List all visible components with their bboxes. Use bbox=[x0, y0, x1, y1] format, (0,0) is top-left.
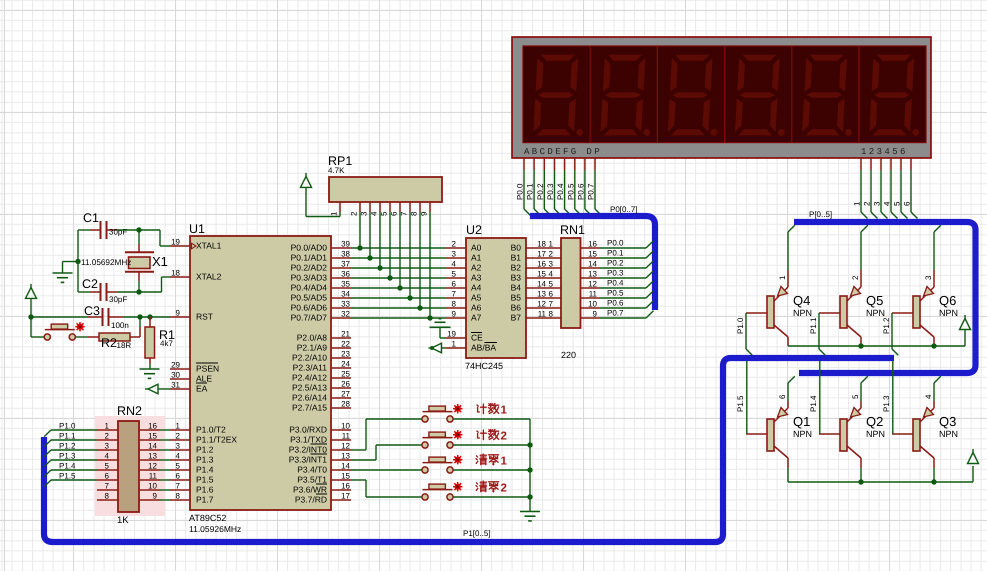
svg-text:4: 4 bbox=[105, 452, 110, 461]
svg-text:21: 21 bbox=[341, 330, 350, 339]
svg-text:A5: A5 bbox=[471, 293, 482, 303]
svg-text:B1: B1 bbox=[511, 253, 522, 263]
RN2 pin 9 right wire to U1 P1.7 bbox=[139, 492, 170, 501]
svg-text:Q3: Q3 bbox=[939, 414, 956, 429]
RN2 pin 13 right wire to U1 P1.3 bbox=[139, 452, 170, 461]
svg-text:ABCDEFG DP: ABCDEFG DP bbox=[524, 147, 602, 157]
svg-text:13: 13 bbox=[588, 270, 597, 279]
wire XTAL1 net bbox=[78, 230, 170, 246]
RN1 pin 10 wire P0.6 bbox=[581, 300, 654, 309]
svg-text:XTAL1: XTAL1 bbox=[196, 241, 222, 251]
svg-text:22: 22 bbox=[341, 340, 350, 349]
svg-text:P3.6/WR: P3.6/WR bbox=[293, 485, 327, 495]
U1 pin 3 P1.2 bbox=[170, 442, 190, 451]
svg-text:P1.5: P1.5 bbox=[196, 475, 214, 485]
svg-text:P0.5/AD5: P0.5/AD5 bbox=[291, 293, 328, 303]
svg-text:5: 5 bbox=[452, 270, 457, 279]
svg-text:9: 9 bbox=[420, 211, 429, 216]
svg-text:AB/BA: AB/BA bbox=[471, 343, 496, 353]
svg-text:2: 2 bbox=[851, 275, 860, 280]
svg-text:12: 12 bbox=[537, 300, 546, 309]
U1 pin 1 P1.0 bbox=[170, 422, 190, 431]
svg-text:P0.6/AD6: P0.6/AD6 bbox=[291, 303, 328, 313]
svg-text:ALE: ALE bbox=[196, 374, 212, 384]
junction RP1 pin 2 / P0.0 bbox=[357, 245, 362, 250]
svg-text:P1.3: P1.3 bbox=[59, 452, 76, 461]
junction Q6 emitter bbox=[931, 343, 936, 348]
capacitor C2 bbox=[90, 283, 117, 301]
push-button reset bbox=[44, 324, 75, 340]
svg-text:P1.5: P1.5 bbox=[59, 472, 76, 481]
svg-text:13: 13 bbox=[537, 290, 546, 299]
svg-text:P0.7: P0.7 bbox=[607, 309, 624, 318]
U2 pin 1 AB/BA bbox=[446, 340, 466, 349]
wire P0.5 row U1-U2 bbox=[351, 297, 446, 299]
svg-text:XTAL2: XTAL2 bbox=[196, 272, 222, 282]
svg-text:29: 29 bbox=[171, 361, 180, 370]
wire buttons common right bbox=[453, 419, 530, 511]
U1 pin 14 P3.4 bbox=[331, 462, 351, 471]
RN1 pin 14 wire P0.2 bbox=[581, 260, 654, 269]
capacitor C3 bbox=[88, 308, 123, 326]
svg-text:P1.4: P1.4 bbox=[809, 395, 818, 412]
svg-text:A1: A1 bbox=[471, 253, 482, 263]
RN2 pin 1 left bbox=[97, 422, 118, 431]
svg-text:11: 11 bbox=[589, 290, 598, 299]
U1 pin 34 P0.5/AD5 bbox=[331, 290, 351, 299]
svg-text:4k7: 4k7 bbox=[160, 339, 173, 348]
svg-text:PSEN: PSEN bbox=[196, 364, 219, 374]
svg-text:1: 1 bbox=[330, 211, 339, 216]
svg-text:P1[0..5]: P1[0..5] bbox=[463, 529, 491, 538]
wire P1.5 to bus bbox=[44, 480, 97, 487]
svg-text:17: 17 bbox=[341, 492, 350, 501]
svg-text:P1.0/T2: P1.0/T2 bbox=[196, 425, 226, 435]
RN2 pin 11 right wire to U1 P1.5 bbox=[139, 472, 170, 481]
svg-text:NPN: NPN bbox=[866, 308, 885, 318]
U1 pin 11 P3.1 bbox=[331, 432, 351, 441]
push-button jishu2 bbox=[422, 432, 453, 448]
U2 pin 17 B1 / RN1 pin 2 bbox=[526, 250, 561, 259]
svg-text:C3: C3 bbox=[84, 304, 100, 318]
junction Q5 emitter bbox=[858, 343, 863, 348]
ground (buttons) bbox=[520, 512, 540, 521]
svg-text:P0.0/AD0: P0.0/AD0 bbox=[291, 243, 328, 253]
svg-text:25: 25 bbox=[341, 370, 350, 379]
U1 pin 2 P1.1 bbox=[170, 432, 190, 441]
svg-text:P1.5: P1.5 bbox=[736, 395, 745, 412]
svg-text:1: 1 bbox=[501, 456, 508, 468]
wire P0.6 row U1-U2 bbox=[351, 307, 446, 309]
svg-text:8: 8 bbox=[176, 492, 181, 501]
wire button2 to P3.3/INT1 bbox=[351, 445, 422, 460]
digit 5 segments (all off) bbox=[801, 54, 852, 136]
display digit pin wire 6 bbox=[911, 158, 918, 219]
svg-text:12: 12 bbox=[148, 462, 157, 471]
junction ground tap bbox=[75, 259, 80, 264]
transistor Q1 NPN bbox=[746, 408, 788, 459]
wire P1.4 bus to base Q2 bbox=[819, 361, 821, 434]
U1 pin 39 P0.0/AD0 bbox=[331, 240, 351, 249]
svg-text:5: 5 bbox=[105, 462, 110, 471]
U1 pin 23 P2.2/A10 bbox=[331, 350, 351, 359]
svg-text:30pF: 30pF bbox=[109, 228, 127, 237]
junction RP1 pin 8 / P0.6 bbox=[417, 305, 422, 310]
svg-text:13: 13 bbox=[148, 452, 157, 461]
wire P1.5 bus to base Q1 bbox=[746, 361, 748, 434]
svg-text:9: 9 bbox=[153, 492, 158, 501]
svg-text:11: 11 bbox=[342, 432, 351, 441]
U1 pin 38 P0.1/AD1 bbox=[331, 250, 351, 259]
svg-text:RST: RST bbox=[196, 312, 213, 322]
svg-text:3: 3 bbox=[176, 442, 181, 451]
junction Q3 emitter bbox=[931, 479, 936, 484]
svg-text:U2: U2 bbox=[466, 223, 482, 237]
RP1 pin 8 wire bbox=[419, 202, 421, 308]
wire P1.3 to bus bbox=[44, 460, 97, 467]
svg-text:28: 28 bbox=[341, 400, 350, 409]
power +5V (RP1) bbox=[301, 173, 312, 188]
button reset actuator star bbox=[75, 322, 84, 331]
svg-text:34: 34 bbox=[341, 290, 350, 299]
svg-text:30pF: 30pF bbox=[109, 295, 127, 304]
svg-text:X1: X1 bbox=[152, 254, 168, 269]
button qingling2 actuator star bbox=[453, 482, 462, 491]
wire 3 Q6 collector to bus bbox=[934, 225, 941, 287]
junction C3/R2 bbox=[137, 314, 142, 319]
svg-text:2: 2 bbox=[452, 240, 457, 249]
display segment pin wire P0.7 bbox=[595, 158, 602, 216]
svg-text:15: 15 bbox=[537, 270, 546, 279]
svg-text:A2: A2 bbox=[471, 263, 482, 273]
wire Q1-Q3 emitter rail bbox=[788, 458, 973, 482]
label qingling2 bbox=[476, 481, 507, 495]
U1 pin names left column bbox=[196, 241, 237, 505]
svg-text:Q6: Q6 bbox=[939, 293, 956, 308]
svg-text:10: 10 bbox=[341, 422, 350, 431]
RN2 pin 14 right wire to U1 P1.2 bbox=[139, 442, 170, 451]
RP1 pin 7 wire bbox=[409, 202, 411, 298]
IC U2 74HC245 body bbox=[466, 238, 526, 358]
svg-text:31: 31 bbox=[171, 381, 180, 390]
svg-text:P1.7: P1.7 bbox=[196, 495, 214, 505]
wire C1-C2 left vertical bbox=[77, 230, 79, 292]
svg-text:NPN: NPN bbox=[939, 429, 958, 439]
RN1 pin 13 wire P0.3 bbox=[581, 270, 654, 279]
svg-text:NPN: NPN bbox=[793, 308, 812, 318]
svg-text:P1.4: P1.4 bbox=[196, 465, 214, 475]
display segment pin wire P0.4 bbox=[565, 158, 572, 216]
svg-text:14: 14 bbox=[537, 280, 546, 289]
U1 pin 30 ALE bbox=[170, 371, 190, 380]
svg-text:NPN: NPN bbox=[793, 429, 812, 439]
svg-text:5: 5 bbox=[380, 211, 389, 216]
svg-text:35: 35 bbox=[341, 280, 350, 289]
U2 pin 3 A1 bbox=[446, 250, 466, 259]
svg-text:11: 11 bbox=[538, 310, 547, 319]
svg-text:10: 10 bbox=[588, 300, 597, 309]
svg-text:Q4: Q4 bbox=[793, 293, 810, 308]
RN2 pin 10 right wire to U1 P1.6 bbox=[139, 482, 170, 491]
svg-text:P2.7/A15: P2.7/A15 bbox=[292, 403, 327, 413]
svg-text:3: 3 bbox=[452, 250, 457, 259]
svg-text:123456: 123456 bbox=[861, 147, 908, 157]
U1 pin 31 EA bbox=[170, 381, 190, 390]
svg-text:B2: B2 bbox=[511, 263, 522, 273]
svg-text:18R: 18R bbox=[117, 341, 132, 350]
junction Q2 emitter bbox=[858, 479, 863, 484]
junction RST/R1 bbox=[147, 314, 152, 319]
svg-text:7: 7 bbox=[400, 211, 409, 216]
svg-text:P0.4/AD4: P0.4/AD4 bbox=[291, 283, 328, 293]
U2 pin 5 A3 bbox=[446, 270, 466, 279]
junction RP1 pin 5 / P0.3 bbox=[387, 275, 392, 280]
svg-text:Q5: Q5 bbox=[866, 293, 883, 308]
svg-text:A3: A3 bbox=[471, 273, 482, 283]
svg-text:74HC245: 74HC245 bbox=[465, 361, 503, 371]
button jishu2 actuator star bbox=[453, 430, 462, 439]
power +5V (Q1-Q3 rail) bbox=[968, 449, 979, 464]
svg-text:1: 1 bbox=[452, 340, 457, 349]
wire P1.0 to bus bbox=[44, 430, 97, 437]
display digit pin wire 2 bbox=[871, 158, 878, 219]
RN2 pin 6 left bbox=[97, 472, 118, 481]
svg-text:P2.6/A14: P2.6/A14 bbox=[292, 393, 327, 403]
svg-text:1: 1 bbox=[853, 201, 862, 206]
U2 pin 6 A4 bbox=[446, 280, 466, 289]
U1 pin 36 P0.3/AD3 bbox=[331, 270, 351, 279]
junction RP1 pin 9 / P0.7 bbox=[427, 315, 432, 320]
junction buttons 4 bbox=[527, 494, 532, 499]
U1 pin 28 P2.7/A15 bbox=[331, 400, 351, 409]
wire RST row bbox=[31, 316, 170, 318]
svg-text:2: 2 bbox=[863, 201, 872, 206]
RP1 pin 2 wire bbox=[359, 202, 361, 248]
U1 pin 8 P1.7 bbox=[170, 492, 190, 501]
svg-text:5: 5 bbox=[851, 394, 860, 399]
resistor network RN1 body bbox=[561, 238, 581, 328]
svg-text:P0.1: P0.1 bbox=[607, 249, 624, 258]
RP1 pin 4 wire bbox=[379, 202, 381, 268]
6-digit 7-segment display DISP1 bbox=[512, 37, 931, 158]
svg-text:8: 8 bbox=[549, 310, 554, 319]
svg-text:B0: B0 bbox=[511, 243, 522, 253]
power +5V (Q4-Q6 rail) bbox=[960, 315, 971, 330]
U1 pin 7 P1.6 bbox=[170, 482, 190, 491]
display segment pin wire P0.6 bbox=[585, 158, 592, 216]
U2 pin 12 B6 / RN1 pin 7 bbox=[526, 300, 561, 309]
U1 pin 29 PSEN bbox=[170, 361, 190, 370]
svg-text:8: 8 bbox=[452, 300, 457, 309]
svg-text:4: 4 bbox=[370, 211, 379, 216]
svg-text:13: 13 bbox=[341, 452, 350, 461]
svg-text:15: 15 bbox=[148, 432, 157, 441]
label jishu1 bbox=[477, 403, 508, 416]
wire P0.1 row U1-U2 bbox=[351, 257, 446, 259]
svg-text:A7: A7 bbox=[471, 313, 482, 323]
svg-text:AT89C52: AT89C52 bbox=[189, 513, 226, 523]
U1 pin 35 P0.4/AD4 bbox=[331, 280, 351, 289]
svg-text:P0.1: P0.1 bbox=[526, 183, 535, 200]
U1 pin 13 P3.3 bbox=[331, 452, 351, 461]
U2 pin 15 B3 / RN1 pin 4 bbox=[526, 270, 561, 279]
svg-text:P0.2/AD2: P0.2/AD2 bbox=[291, 263, 328, 273]
digit 2 segments (all off) bbox=[600, 54, 651, 136]
wire 2 Q5 collector to bus bbox=[861, 225, 868, 287]
svg-text:2: 2 bbox=[176, 432, 181, 441]
svg-text:B7: B7 bbox=[511, 313, 522, 323]
svg-text:P1.2: P1.2 bbox=[882, 317, 891, 334]
display segment pin wire P0.2 bbox=[544, 158, 551, 216]
svg-text:5: 5 bbox=[176, 462, 181, 471]
IC U1 AT89C52 body bbox=[190, 236, 331, 510]
svg-text:R2: R2 bbox=[101, 336, 117, 350]
svg-text:3: 3 bbox=[873, 201, 882, 206]
U2 pin 14 B4 / RN1 pin 5 bbox=[526, 280, 561, 289]
power arrow (U2 AB/BA) bbox=[429, 343, 447, 353]
svg-text:P1.3: P1.3 bbox=[196, 455, 214, 465]
svg-text:15: 15 bbox=[341, 472, 350, 481]
svg-text:100n: 100n bbox=[111, 321, 129, 330]
RN2 pin 16 right wire to U1 P1.0 bbox=[139, 422, 170, 431]
svg-text:2: 2 bbox=[549, 250, 554, 259]
svg-text:1: 1 bbox=[549, 240, 554, 249]
svg-text:30: 30 bbox=[171, 371, 180, 380]
svg-text:27: 27 bbox=[341, 390, 350, 399]
junction buttons 2 bbox=[527, 442, 532, 447]
wire P0.3 row U1-U2 bbox=[351, 277, 446, 279]
junction RP1 pin 6 / P0.4 bbox=[397, 285, 402, 290]
transistor Q5 NPN bbox=[819, 287, 861, 338]
svg-text:6: 6 bbox=[105, 472, 110, 481]
button jishu1 actuator star bbox=[453, 404, 462, 413]
svg-text:P1.1/T2EX: P1.1/T2EX bbox=[196, 435, 237, 445]
svg-text:7: 7 bbox=[549, 300, 554, 309]
push-button qingling2 bbox=[422, 484, 453, 500]
RN1 pin 16 wire P0.0 bbox=[581, 240, 654, 249]
svg-text:7: 7 bbox=[105, 482, 110, 491]
svg-text:P0.6: P0.6 bbox=[576, 183, 585, 200]
U1 pin 25 P2.4/A12 bbox=[331, 370, 351, 379]
svg-text:2: 2 bbox=[105, 432, 110, 441]
svg-text:6: 6 bbox=[549, 290, 554, 299]
svg-text:P1.6: P1.6 bbox=[196, 485, 214, 495]
RN2 pin 5 left bbox=[97, 462, 118, 471]
svg-text:RN2: RN2 bbox=[117, 404, 142, 418]
svg-text:5: 5 bbox=[893, 201, 902, 206]
U1 pin 4 P1.3 bbox=[170, 452, 190, 461]
wire P1.2 base Q6 to bus bbox=[892, 313, 898, 355]
resistor R1 bbox=[145, 317, 155, 369]
svg-text:P1.1: P1.1 bbox=[809, 317, 818, 334]
U1 pin 17 P3.7 bbox=[331, 492, 351, 501]
svg-text:P1.4: P1.4 bbox=[59, 462, 76, 471]
svg-text:P0.0: P0.0 bbox=[516, 183, 525, 200]
svg-text:24: 24 bbox=[341, 360, 350, 369]
svg-text:B6: B6 bbox=[511, 303, 522, 313]
ground (R1) bbox=[140, 369, 160, 378]
svg-text:3: 3 bbox=[360, 211, 369, 216]
wire 6 bus to Q1 collector bbox=[788, 376, 795, 408]
svg-text:9: 9 bbox=[593, 310, 598, 319]
svg-text:P1.1: P1.1 bbox=[59, 432, 76, 441]
svg-text:1K: 1K bbox=[117, 515, 129, 526]
svg-text:P3.5/T1: P3.5/T1 bbox=[297, 475, 327, 485]
digit 4 segments (all off) bbox=[734, 54, 785, 136]
svg-text:4: 4 bbox=[452, 260, 457, 269]
svg-text:18: 18 bbox=[171, 269, 180, 278]
transistor Q3 NPN bbox=[892, 408, 934, 459]
svg-text:2: 2 bbox=[501, 431, 507, 443]
svg-text:1: 1 bbox=[176, 422, 181, 431]
svg-text:23: 23 bbox=[341, 350, 350, 359]
display segment pin wire P0.5 bbox=[575, 158, 582, 216]
svg-text:P2.3/A11: P2.3/A11 bbox=[293, 363, 328, 373]
svg-text:NPN: NPN bbox=[939, 308, 958, 318]
U1 pin 21 P2.0/A8 bbox=[331, 330, 351, 339]
svg-text:A6: A6 bbox=[471, 303, 482, 313]
svg-text:P3.1/TXD: P3.1/TXD bbox=[290, 435, 327, 445]
U2 pin names bbox=[471, 243, 521, 353]
U1 pin 24 P2.3/A11 bbox=[331, 360, 351, 369]
svg-text:4: 4 bbox=[549, 270, 554, 279]
wire button1 to P3.2/INT0 bbox=[351, 419, 422, 450]
svg-text:39: 39 bbox=[341, 240, 350, 249]
svg-text:5: 5 bbox=[549, 280, 554, 289]
svg-text:6: 6 bbox=[176, 472, 181, 481]
U1 pin 5 P1.4 bbox=[170, 462, 190, 471]
wire button4 to P3.5/T1 bbox=[351, 480, 422, 497]
U1 pin 12 P3.2 bbox=[331, 442, 351, 451]
RN1 pin 11 wire P0.5 bbox=[581, 290, 654, 299]
RN1 pin 12 wire P0.4 bbox=[581, 280, 654, 289]
svg-text:16: 16 bbox=[537, 260, 546, 269]
svg-text:P3.4/T0: P3.4/T0 bbox=[297, 465, 327, 475]
svg-text:P0.4: P0.4 bbox=[607, 279, 624, 288]
svg-text:8: 8 bbox=[105, 492, 110, 501]
wire EA power bbox=[159, 388, 171, 390]
wire P0.2 row U1-U2 bbox=[351, 267, 446, 269]
capacitor C1 bbox=[90, 221, 117, 239]
svg-text:U1: U1 bbox=[189, 222, 205, 236]
svg-text:P3.7/RD: P3.7/RD bbox=[295, 495, 327, 505]
power +5V (reset) bbox=[26, 284, 37, 317]
svg-text:11.05692MHz: 11.05692MHz bbox=[81, 258, 131, 267]
svg-text:16: 16 bbox=[588, 240, 597, 249]
svg-text:P0.5: P0.5 bbox=[607, 289, 624, 298]
svg-text:220: 220 bbox=[561, 350, 576, 360]
bus P[0..5] right vertical bbox=[794, 222, 976, 373]
svg-text:RN1: RN1 bbox=[560, 223, 585, 237]
U1 pin 19 XTAL1 bbox=[170, 238, 190, 247]
wire reset button leg bbox=[31, 317, 88, 337]
U1 pin 6 P1.5 bbox=[170, 472, 190, 481]
svg-text:6: 6 bbox=[778, 394, 787, 399]
svg-text:17: 17 bbox=[537, 250, 546, 259]
junction RP1 pin 4 / P0.2 bbox=[377, 265, 382, 270]
svg-text:6: 6 bbox=[903, 201, 912, 206]
svg-text:P0.3: P0.3 bbox=[546, 183, 555, 200]
wire P1.0 base Q4 to bus bbox=[746, 313, 752, 355]
digit 6 segments (all off) bbox=[869, 54, 920, 136]
svg-text:EA: EA bbox=[196, 384, 208, 394]
label jishu2 bbox=[477, 429, 507, 442]
wire button3 to P3.4/T0 bbox=[351, 469, 422, 471]
svg-text:P3.3/INT1: P3.3/INT1 bbox=[289, 455, 328, 465]
svg-text:33: 33 bbox=[341, 300, 350, 309]
svg-text:7: 7 bbox=[176, 482, 181, 491]
svg-text:18: 18 bbox=[537, 240, 546, 249]
